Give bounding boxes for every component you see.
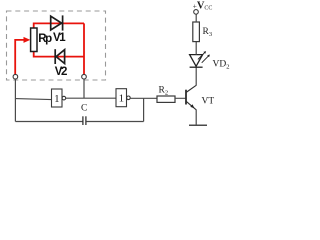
- diode V1: [51, 15, 63, 30]
- LED VD2: [190, 55, 203, 68]
- terminal node right: [82, 74, 87, 79]
- potentiometer Rp: [31, 28, 37, 52]
- wiper arrow into Rp: [24, 37, 31, 43]
- resistor R3: [193, 22, 200, 42]
- wire red left branch (node to Rp wiper): [15, 40, 24, 75]
- emitter terminal bar: [189, 124, 207, 126]
- dashed enclosure: [7, 11, 106, 80]
- wire collector up to LED: [195, 67, 197, 85]
- emitter arrowhead: [190, 104, 194, 108]
- wire emitter down: [195, 110, 197, 125]
- wire to gate 1 input: [15, 99, 51, 100]
- svg-text:Rp: Rp: [38, 33, 52, 45]
- wire gate2 output to R2: [130, 97, 157, 99]
- svg-text:C: C: [81, 104, 87, 114]
- capacitor C: [83, 116, 86, 125]
- LED emission arrow 2: [202, 55, 210, 63]
- Vcc terminal: [194, 10, 199, 15]
- diode V2: [55, 49, 64, 64]
- wire right node down: [83, 79, 85, 98]
- wire gate1 output to gate2 input: [66, 97, 116, 99]
- inverter gate D2: [116, 89, 130, 107]
- wire junction down to bottom rail: [143, 98, 145, 121]
- bottom rail right segment: [86, 121, 143, 123]
- svg-text:V1: V1: [53, 32, 66, 44]
- wire left vertical down: [14, 79, 16, 122]
- wire R2 to base: [175, 97, 186, 99]
- wire R3 up to Vcc: [195, 14, 197, 22]
- wire red top (Rp top to V1 to right): [34, 23, 84, 28]
- svg-text:VT: VT: [202, 97, 215, 107]
- svg-text:1: 1: [54, 93, 60, 105]
- transistor VT: [186, 85, 196, 110]
- wire LED anode up to R3: [195, 42, 197, 55]
- inverter gate D1: [52, 89, 66, 107]
- terminal node left: [13, 74, 18, 79]
- resistor R2: [157, 96, 175, 102]
- wire red bottom (Rp bottom to V2 to right): [34, 51, 84, 56]
- wire red right vertical: [83, 23, 85, 74]
- svg-text:1: 1: [119, 93, 125, 105]
- LED emission arrow 1: [198, 51, 206, 59]
- svg-text:V2: V2: [55, 66, 68, 78]
- bottom rail left segment: [15, 121, 82, 123]
